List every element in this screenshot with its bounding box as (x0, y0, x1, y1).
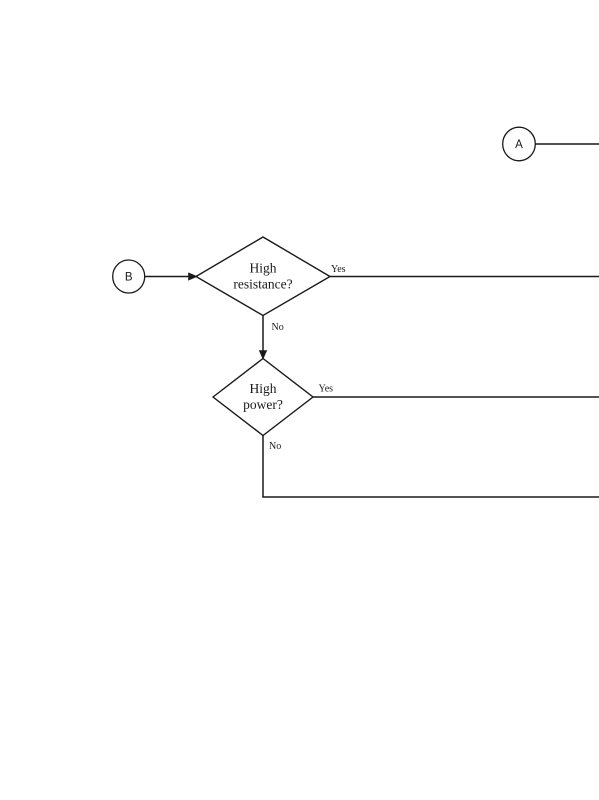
svg-text:High: High (250, 261, 277, 276)
connector circle A (503, 127, 536, 161)
wire D2 yes branch to right edge (313, 396, 599, 398)
wire D2 no branch down (262, 436, 264, 498)
svg-text:Yes: Yes (331, 264, 346, 275)
wire B to diamond (145, 276, 189, 278)
svg-text:Yes: Yes (319, 384, 334, 395)
svg-text:B: B (125, 272, 133, 284)
svg-text:power?: power? (243, 397, 283, 412)
wire D1 yes branch to right edge (330, 276, 599, 278)
svg-text:High: High (250, 381, 277, 396)
svg-text:resistance?: resistance? (233, 277, 292, 292)
decision diamond D2 High power? (213, 359, 313, 436)
wire D1 no branch down (262, 316, 264, 352)
svg-text:No: No (272, 322, 284, 333)
svg-text:A: A (515, 139, 523, 151)
wire no branch to right edge (262, 496, 599, 498)
arrowhead into diamond D1 (189, 273, 197, 280)
wire from A to right edge (535, 143, 599, 145)
svg-text:No: No (269, 441, 281, 452)
connector circle B (113, 260, 145, 293)
decision diamond D1 High resistance? (196, 237, 330, 316)
arrowhead into diamond D2 (260, 351, 267, 359)
